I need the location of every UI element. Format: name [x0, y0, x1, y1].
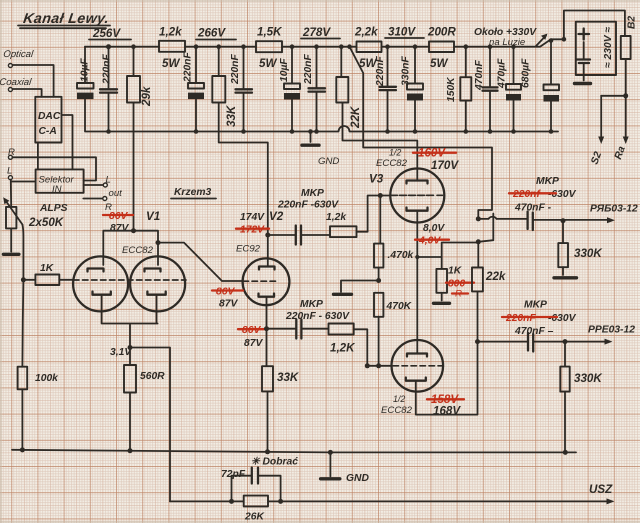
svg-text:87V: 87V [244, 338, 263, 349]
resistor R 33k a [212, 47, 267, 235]
capacitor C 220nF d [303, 47, 325, 132]
node label 266V [196, 27, 236, 40]
resistor R 560R [124, 348, 165, 451]
svg-text:266V: 266V [197, 27, 226, 40]
resistor R 1,2K grid c [329, 324, 392, 369]
svg-text:220nF: 220nF [183, 52, 194, 83]
label Dobrac [251, 457, 298, 468]
capacitor C 470nF [474, 47, 498, 132]
svg-text:150K: 150K [446, 76, 457, 102]
junction dots on rail [106, 37, 566, 49]
capacitor C MKP coupling a [268, 226, 330, 245]
svg-text:C-A: C-A [39, 126, 57, 137]
tube V2 EC92 [236, 233, 289, 329]
terminal L in [7, 166, 36, 207]
svg-text:Coaxial: Coaxial [0, 77, 33, 88]
svg-text:278V: 278V [302, 26, 331, 39]
voltage note 158V 168V [427, 393, 464, 418]
svg-text:1,2K: 1,2K [330, 342, 356, 355]
svg-text:V1: V1 [146, 210, 160, 223]
svg-text:330nF: 330nF [401, 56, 412, 86]
svg-text:USZ: USZ [589, 483, 613, 496]
svg-text:L: L [106, 175, 111, 186]
resistor R 200R 5W [427, 26, 456, 71]
svg-text:MKP: MKP [301, 188, 324, 199]
svg-text:33K: 33K [225, 104, 238, 127]
tube V1 ECC82 double triode [73, 245, 186, 348]
svg-text:1/2: 1/2 [389, 148, 401, 158]
capacitor C 72pF [221, 468, 283, 504]
terminal Optical [3, 49, 54, 97]
potentiometer ALPS 2x50K [3, 197, 67, 279]
resistor R 2,2k 5W [354, 26, 382, 71]
label MKP 470nF lower output [502, 300, 577, 338]
svg-text:GND: GND [346, 473, 369, 484]
svg-text:174V: 174V [240, 212, 265, 223]
selektor box [36, 169, 84, 195]
svg-text:B2: B2 [627, 16, 638, 29]
svg-text:22k: 22k [485, 270, 506, 283]
svg-text:256V: 256V [92, 27, 121, 40]
svg-text:1,5K: 1,5K [257, 26, 283, 39]
svg-text:26K: 26K [244, 512, 265, 523]
svg-text:Kanał Lewy.: Kanał Lewy. [22, 11, 110, 27]
resistor R 470K lower [374, 293, 413, 369]
svg-text:470nF -: 470nF - [514, 203, 552, 214]
voltage note 174V 172V V2 [236, 210, 284, 236]
svg-text:86V: 86V [109, 211, 128, 222]
resistor R 330K lower [560, 339, 603, 452]
svg-text:MKP: MKP [300, 299, 323, 310]
capacitor C 220nF a [100, 47, 117, 132]
wire DAC to selektor [38, 115, 73, 169]
svg-text:170V: 170V [431, 159, 459, 172]
voltage note 800R struck [446, 279, 474, 300]
svg-text:2,2k: 2,2k [354, 26, 378, 39]
voltage note 86V 87V at V1 [103, 211, 133, 234]
voltage note 8,0V 4,0V [415, 223, 449, 247]
svg-text:87V: 87V [110, 223, 129, 234]
resistor R 150K [446, 47, 471, 132]
title Kanal Lewy [18, 11, 110, 28]
svg-text:5W: 5W [259, 57, 277, 70]
node label 278V [301, 26, 340, 39]
resistor R 1,2k grid a [326, 196, 389, 238]
svg-text:220nF -630V: 220nF -630V [277, 200, 339, 211]
svg-text:-630V: -630V [548, 313, 577, 324]
svg-text:560R: 560R [140, 371, 165, 382]
terminal R out [83, 197, 112, 214]
svg-text:330K: 330K [574, 372, 603, 385]
svg-text:V3: V3 [369, 173, 384, 186]
svg-text:200R: 200R [427, 26, 456, 39]
resistor R 1K grid [21, 263, 73, 285]
terminal L out [84, 175, 123, 200]
svg-text:ECC82: ECC82 [381, 405, 413, 416]
svg-text:220nF: 220nF [102, 54, 113, 85]
svg-text:29k: 29k [140, 86, 153, 107]
svg-text:L: L [7, 166, 12, 177]
svg-text:≈ 230V ≈: ≈ 230V ≈ [603, 27, 614, 68]
svg-text:310V: 310V [388, 26, 416, 39]
terminal Coaxial [0, 77, 42, 97]
wire B+ rail [85, 11, 625, 47]
svg-text:ECC82: ECC82 [122, 245, 154, 256]
wire V1 to EC92 diagonal [158, 243, 243, 281]
svg-text:MKP: MKP [524, 300, 547, 311]
svg-text:10µF: 10µF [279, 58, 290, 82]
svg-text:РРЕ03-12: РРЕ03-12 [588, 325, 635, 336]
svg-text:ALPS: ALPS [39, 203, 68, 214]
svg-text:220nF: 220nF [505, 313, 536, 324]
svg-text:out: out [109, 188, 123, 199]
node label 310V [385, 26, 424, 39]
capacitor C 220nF b [183, 47, 205, 132]
svg-text:86V: 86V [216, 287, 235, 298]
svg-text:Krzem3: Krzem3 [174, 187, 211, 198]
DAC box [35, 97, 61, 143]
capacitor C 220nF e [375, 47, 396, 132]
label Krzem3 [171, 187, 216, 199]
wire main ground bus bottom [12, 447, 576, 455]
svg-text:.470k: .470k [388, 250, 415, 261]
svg-text:-630V: -630V [548, 189, 577, 200]
svg-text:33K: 33K [277, 371, 300, 384]
wire B+ to V1 anodes [103, 228, 160, 265]
resistor R 33K cathode [262, 326, 300, 451]
svg-text:DAC: DAC [38, 111, 61, 122]
wire V3 grid node [378, 193, 429, 244]
svg-text:Optical: Optical [3, 49, 35, 60]
label MKP 470nF upper output [509, 176, 577, 214]
svg-text:5W: 5W [162, 57, 180, 70]
ground GND2 [321, 452, 370, 484]
voltage note 86V 87V EC92 grid [212, 287, 243, 310]
svg-text:330K: 330K [574, 247, 603, 260]
voltage note 160V 170V [413, 147, 459, 173]
svg-text:220nF: 220nF [230, 54, 241, 85]
capacitor C 470uF [497, 47, 522, 132]
label MKP 220nF-630V a [277, 188, 339, 211]
capacitor C 220nF c [230, 47, 252, 132]
junction dots on ground bus [106, 129, 553, 134]
capacitor C 680uF [521, 40, 560, 132]
resistor R 29k [127, 47, 153, 231]
svg-text:680µF: 680µF [521, 58, 532, 88]
svg-text:220nF: 220nF [303, 54, 314, 85]
svg-text:V2: V2 [269, 210, 284, 223]
voltage note 86V 87V EC92 out [238, 325, 264, 349]
resistor R 1,5K 5W [256, 26, 283, 71]
svg-text:1,2k: 1,2k [326, 212, 347, 223]
svg-text:2x50K: 2x50K [28, 216, 65, 229]
capacitor C 10uF [77, 58, 94, 99]
svg-text:72pF: 72pF [221, 469, 246, 480]
ground mid divider [334, 281, 379, 295]
wire ground bus [85, 47, 558, 132]
power supply box B2 [575, 22, 617, 84]
wire output 2 [475, 333, 613, 352]
svg-text:8,0V: 8,0V [423, 223, 445, 234]
svg-text:MKP: MKP [536, 176, 559, 187]
resistor R 1,2k 5W [159, 26, 185, 71]
label Okolo +330V na Luzie [474, 27, 548, 48]
svg-text:EC92: EC92 [236, 244, 261, 255]
wire output 1 [476, 212, 615, 231]
resistor R B2 series [601, 36, 630, 96]
svg-text:1K: 1K [448, 266, 463, 277]
svg-text:10µF: 10µF [80, 58, 91, 82]
svg-text:ECC82: ECC82 [376, 158, 408, 169]
svg-text:87V: 87V [219, 299, 238, 310]
svg-text:168V: 168V [433, 405, 461, 418]
svg-text:4,0V: 4,0V [418, 236, 441, 247]
svg-text:1K: 1K [40, 263, 55, 274]
wire cathode node 3,1V [110, 345, 170, 501]
svg-text:100k: 100k [35, 373, 59, 384]
svg-text:220nf: 220nf [512, 189, 541, 200]
resistor R 100k [18, 367, 60, 451]
resistor R 1K cathode [434, 266, 463, 304]
wire S2 arrow [589, 96, 604, 166]
tube V3 half ECC82 [369, 141, 444, 353]
svg-text:470nF –: 470nF – [514, 326, 554, 337]
node label 256V [89, 27, 131, 40]
svg-text:5W: 5W [430, 57, 448, 70]
wire wiper to 100k [22, 280, 23, 367]
ground GND1 [302, 132, 339, 168]
svg-text:✳ Dobrać: ✳ Dobrać [251, 457, 298, 468]
svg-text:РЯБ03-12: РЯБ03-12 [590, 204, 638, 215]
wire 278V feed diagonal [350, 47, 494, 268]
svg-text:IN: IN [52, 184, 62, 195]
svg-text:86V: 86V [242, 325, 261, 336]
svg-text:1,2k: 1,2k [159, 26, 182, 39]
capacitor C 330nF [401, 47, 424, 132]
terminal R in [8, 147, 96, 181]
resistor R 26K [170, 496, 615, 523]
resistor R 470k upper [374, 244, 415, 283]
svg-text:220nF: 220nF [375, 56, 386, 87]
wire Ra arrow [613, 93, 629, 161]
capacitor C MKP coupling c [267, 320, 329, 339]
resistor R 330K upper [554, 218, 603, 278]
tube V4 half ECC82 [381, 340, 478, 416]
svg-text:220nF - 630V: 220nF - 630V [285, 311, 350, 322]
resistor R 22k [472, 268, 506, 342]
svg-text:22K: 22K [349, 105, 362, 129]
svg-text:1/2: 1/2 [393, 394, 405, 404]
svg-text:GND: GND [318, 156, 339, 167]
resistor R 22K dropper [336, 47, 417, 141]
wire V3 cathode branch [415, 239, 481, 269]
label MKP 220nF-630V c [285, 299, 350, 322]
capacitor C 10uF b [279, 47, 300, 132]
svg-text:172V: 172V [240, 225, 265, 236]
svg-text:470K: 470K [386, 301, 413, 312]
